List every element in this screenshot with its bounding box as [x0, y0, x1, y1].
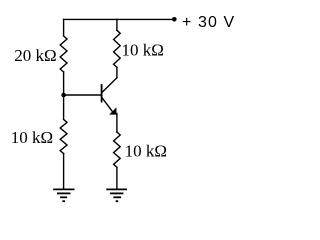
ground: left earth symbol	[53, 189, 74, 201]
resistor R3 10 kOhm (lower left)	[60, 119, 67, 153]
svg-text:+ 30 V: + 30 V	[182, 14, 235, 31]
wire: rail to R2	[116, 19, 118, 30]
wire: emitter to R4	[116, 114, 118, 133]
wire: R1 bottom to base node	[63, 72, 65, 95]
resistor R4 10 kOhm (emitter)	[114, 132, 121, 167]
wire: R4 bottom to ground	[116, 167, 118, 189]
transistor Q1 (NPN)	[102, 78, 117, 115]
svg-text:20 kΩ: 20 kΩ	[14, 46, 56, 65]
wire: R3 bottom to ground	[63, 154, 65, 190]
ground: right earth symbol	[106, 189, 127, 201]
wire: top supply rail	[64, 18, 173, 20]
node: supply terminal dot	[172, 17, 177, 22]
wire: base node to R3	[63, 95, 65, 119]
wire: R2 bottom to collector	[116, 67, 118, 78]
node: base divider junction dot	[61, 93, 66, 98]
wire: left branch top (rail to R1)	[63, 19, 65, 36]
wire: base wire from node to Q1	[64, 94, 101, 96]
svg-text:10 kΩ: 10 kΩ	[122, 40, 164, 59]
svg-text:10 kΩ: 10 kΩ	[125, 142, 167, 161]
resistor R1 20 kOhm	[60, 36, 67, 72]
svg-text:10 kΩ: 10 kΩ	[11, 128, 53, 147]
resistor R2 10 kOhm (collector)	[114, 30, 121, 67]
